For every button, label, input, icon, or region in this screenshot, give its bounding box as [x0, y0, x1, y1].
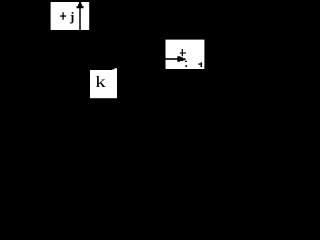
svg-text:j: j [69, 9, 74, 24]
svg-text:k: k [95, 74, 106, 91]
